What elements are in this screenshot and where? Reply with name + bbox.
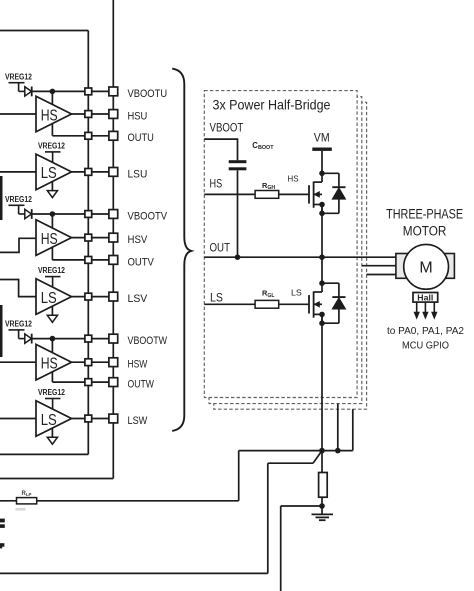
svg-text:OUTV: OUTV [128, 256, 155, 268]
svg-text:LSV: LSV [128, 293, 148, 305]
svg-text:HSU: HSU [128, 110, 148, 122]
svg-text:HS: HS [288, 174, 299, 184]
svg-text:VREG12: VREG12 [38, 388, 66, 397]
svg-text:OUTU: OUTU [128, 132, 154, 144]
svg-text:Hall: Hall [417, 292, 433, 302]
svg-text:LS: LS [41, 290, 57, 307]
svg-text:HSV: HSV [128, 234, 148, 246]
svg-text:HSW: HSW [128, 359, 148, 371]
svg-text:VREG12: VREG12 [38, 141, 66, 150]
svg-text:MCU GPIO: MCU GPIO [402, 340, 449, 351]
svg-text:VREG12: VREG12 [38, 266, 66, 275]
svg-text:LS: LS [210, 291, 223, 305]
svg-text:VM: VM [314, 131, 330, 145]
svg-text:LS: LS [41, 412, 57, 429]
svg-text:3x Power Half-Bridge: 3x Power Half-Bridge [213, 98, 331, 113]
svg-text:LSU: LSU [128, 168, 148, 180]
svg-text:RLP: RLP [22, 491, 32, 497]
svg-text:VBOOTV: VBOOTV [128, 210, 168, 222]
svg-text:VBOOTU: VBOOTU [128, 88, 168, 100]
svg-text:LSW: LSW [128, 415, 148, 427]
svg-text:OUT: OUT [210, 241, 231, 255]
svg-text:M: M [419, 260, 432, 277]
svg-text:VREG12: VREG12 [5, 320, 33, 329]
svg-text:VREG12: VREG12 [5, 72, 33, 81]
svg-text:HS: HS [41, 356, 58, 373]
svg-text:VBOOT: VBOOT [210, 121, 244, 135]
svg-text:HS: HS [210, 177, 223, 191]
svg-text:THREE-PHASE: THREE-PHASE [386, 207, 463, 222]
svg-text:VREG12: VREG12 [5, 195, 33, 204]
svg-text:LS: LS [41, 165, 57, 182]
svg-text:MOTOR: MOTOR [403, 223, 447, 238]
svg-text:VBOOTW: VBOOTW [128, 335, 168, 347]
svg-text:HS: HS [41, 107, 58, 124]
svg-text:OUTW: OUTW [128, 379, 155, 391]
svg-text:HS: HS [41, 231, 58, 248]
svg-text:LS: LS [291, 288, 302, 298]
svg-text:to PA0, PA1, PA2: to PA0, PA1, PA2 [387, 326, 464, 337]
